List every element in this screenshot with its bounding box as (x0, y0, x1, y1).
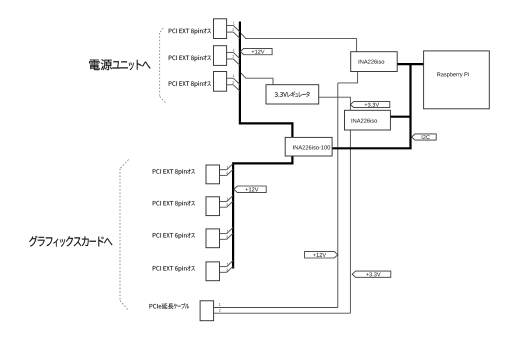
connector J2 PCI EXT 8pin male (PSU) pins (227, 51, 234, 53)
label J2 (169, 55, 211, 61)
net label +12V (GPU bus) (234, 186, 266, 193)
label J8 PCIe extension cable (150, 303, 190, 309)
wire I2C: INA226iso U1 to Raspberry Pi (397, 63, 424, 65)
connector J4 PCI EXT 8pin male (GPU) pins (220, 169, 227, 171)
pin numbers J3 (233, 75, 235, 78)
connector J1 PCI EXT 8pin male (PSU) pins (227, 25, 234, 27)
bus: INA226iso-100 bottom to graphics bus (233, 156, 292, 269)
module U2 INA226iso (345, 110, 391, 130)
wire: +12V net vertical down to PCIe pin1 (337, 83, 339, 308)
net label +3.3V (PCIe riser) (352, 271, 391, 277)
label U4 3.3V regulator (275, 91, 310, 97)
module A1 Raspberry Pi (424, 51, 490, 109)
module U1 INA226iso (351, 52, 398, 72)
pin numbers J8 (219, 303, 221, 306)
wire: PCIe pin2 horizontal (214, 312, 351, 314)
pin numbers J1 (233, 22, 235, 25)
wire: bus exit to INA226iso U1 input (240, 32, 357, 51)
connector J2 PCI EXT 8pin male (PSU) body (214, 46, 227, 66)
connector J6 PCI EXT 6pin male (GPU) pins (220, 233, 227, 235)
connector J3 PCI EXT 8pin male (PSU) body (214, 72, 227, 92)
net label +12V (PCIe riser) (305, 252, 338, 258)
connector J6 body (206, 229, 220, 248)
pin numbers J6 (227, 230, 229, 233)
label J7 (153, 266, 195, 272)
connector J7 PCI EXT 6pin male (GPU) pins (220, 266, 227, 268)
pin numbers J4 (227, 166, 229, 169)
wire I2C: INA226iso-100 branch (332, 147, 412, 149)
dashed bracket: to graphics card (120, 160, 129, 169)
connector J7 body (206, 262, 220, 281)
connector J4 body (206, 165, 220, 184)
module U3 INA226iso-100 (285, 137, 332, 156)
wire I2C: vertical trunk (409, 64, 411, 148)
net label I2C (412, 134, 437, 140)
connector J1 PCI EXT 8pin male (PSU) body (214, 19, 227, 39)
label J3 (169, 81, 211, 87)
label J6 (153, 233, 195, 239)
label J4 (153, 169, 195, 175)
wire: PCIe pin1 horizontal (214, 307, 338, 309)
bus: PSU +12V bus, down then right into INA226iso-100 top (240, 22, 293, 138)
wire: bus exit to 3.3V regulator input (240, 72, 273, 85)
net label +12V (PSU bus) (240, 48, 272, 54)
label: to power supply unit (89, 59, 150, 70)
wire: INA226iso U1 bottom pin to +12V net vertical (338, 72, 358, 83)
pin numbers J5 (227, 198, 229, 201)
wire: regulator 3.3V output (319, 97, 351, 313)
connector J3 PCI EXT 8pin male (PSU) pins (227, 77, 234, 79)
connector J8 PCIe extension cable body (200, 301, 214, 321)
dashed bracket: to power supply unit (160, 28, 164, 33)
label J5 (153, 201, 195, 207)
wire I2C: INA226iso U2 branch (390, 116, 410, 118)
label J1 (169, 28, 211, 34)
connector J5 PCI EXT 8pin male (GPU) pins (220, 201, 227, 203)
connector J5 body (206, 197, 220, 216)
module U4 3.3V regulator (266, 85, 319, 104)
pin numbers J2 (233, 49, 235, 52)
label: to graphics card (29, 236, 112, 247)
net label +3.3V (regulator out) (350, 102, 389, 108)
pin numbers J7 (227, 263, 229, 266)
